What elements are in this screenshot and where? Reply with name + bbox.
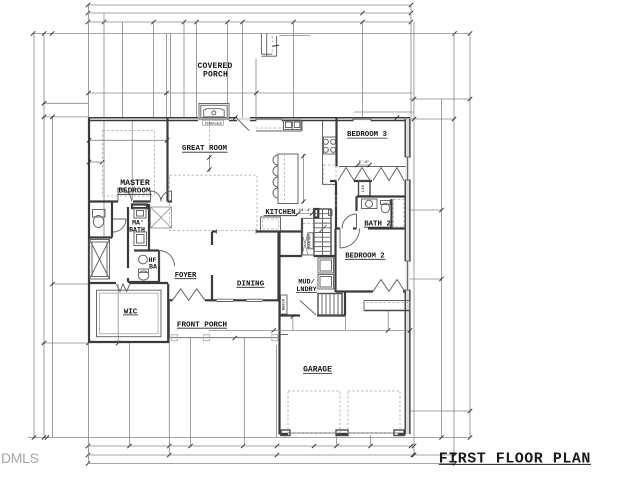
svg-text:FIREPLACE: FIREPLACE: [205, 121, 223, 125]
svg-text:14'-4": 14'-4": [299, 208, 311, 213]
svg-text:LIN: LIN: [362, 185, 366, 192]
svg-text:PANTRY: PANTRY: [308, 233, 312, 248]
svg-text:MA': MA': [132, 219, 144, 226]
svg-text:BA: BA: [149, 263, 157, 270]
svg-text:BATH: BATH: [129, 226, 145, 233]
svg-text:5'-4": 5'-4": [359, 160, 369, 165]
svg-text:DMLS: DMLS: [1, 450, 39, 466]
svg-text:BENCH: BENCH: [283, 299, 287, 310]
svg-text:PORCH: PORCH: [203, 71, 228, 80]
